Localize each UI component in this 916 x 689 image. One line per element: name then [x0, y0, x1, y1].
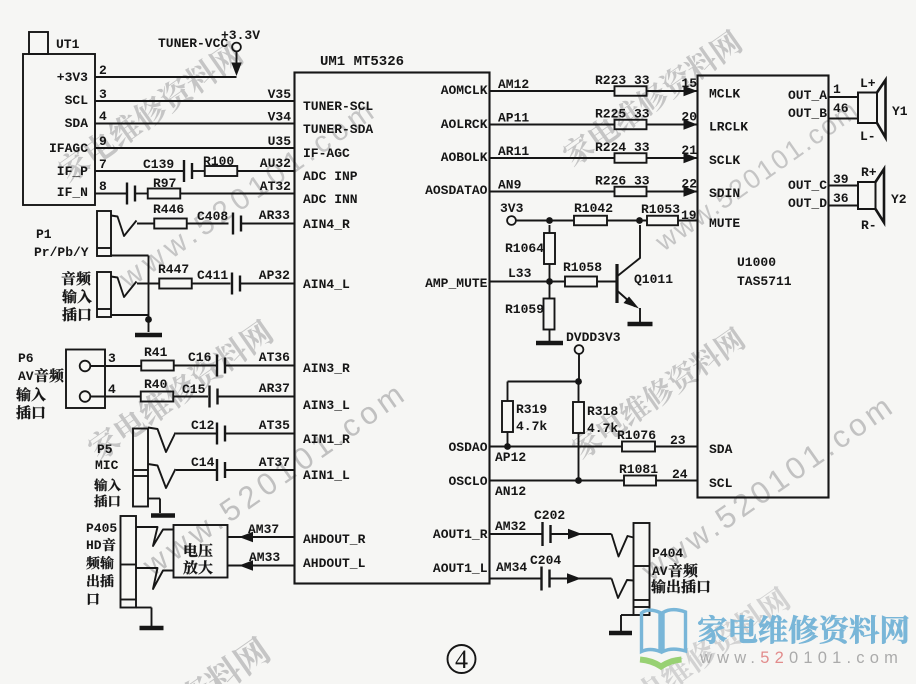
svg-text:MUTE: MUTE — [709, 216, 740, 231]
U1000 pin label OUT_B — [788, 106, 827, 121]
resistor R318 4.7k — [573, 382, 618, 481]
U1000 pin label MUTE — [709, 216, 740, 231]
pin number 7 — [99, 157, 107, 172]
svg-text:R97: R97 — [153, 176, 176, 191]
pin label SDA — [65, 116, 89, 131]
capacitor C16 — [188, 350, 225, 377]
svg-text:AP12: AP12 — [495, 450, 526, 465]
jack contact P5 upper — [148, 428, 176, 453]
svg-text:SCLK: SCLK — [709, 153, 740, 168]
jack contact P404 lower — [612, 579, 634, 599]
pin label +3V3 — [57, 70, 88, 85]
U1000 pin label OUT_D — [788, 196, 827, 211]
wire C411 to UM1 net AP32 — [241, 268, 295, 284]
svg-text:P405: P405 — [86, 521, 117, 536]
wire jack to R447 — [137, 283, 160, 285]
wire P6 pin4 to R40 — [90, 396, 141, 398]
svg-text:C12: C12 — [191, 418, 215, 433]
wire AHDOUT_R net AM37 — [228, 522, 295, 542]
svg-text:R1076: R1076 — [617, 428, 656, 443]
svg-text:TUNER-VCC: TUNER-VCC — [158, 36, 228, 51]
svg-text:R1064: R1064 — [505, 241, 544, 256]
speaker Y2 — [858, 165, 907, 233]
svg-text:AMP_MUTE: AMP_MUTE — [425, 276, 488, 291]
svg-text:LRCLK: LRCLK — [709, 120, 748, 135]
wire R41 to C16 — [174, 365, 216, 367]
resistor R446 — [153, 202, 187, 229]
svg-text:R318: R318 — [587, 404, 618, 419]
jack contact P405 lower — [136, 568, 174, 589]
decorative watermark — [607, 584, 793, 689]
ground — [536, 341, 563, 346]
pin label IF_P — [57, 164, 88, 179]
resistor R40 — [141, 377, 174, 402]
pin number 46 — [833, 101, 849, 116]
svg-text:C16: C16 — [188, 350, 212, 365]
svg-text:AT32: AT32 — [260, 179, 291, 194]
connector P6 box — [66, 350, 105, 409]
svg-text:www.520101.com: www.520101.com — [699, 649, 903, 667]
wire R97 to UM1 net AT32 — [181, 179, 295, 194]
UM1 pin label AIN3_L — [303, 398, 350, 413]
resistor R41 — [141, 345, 174, 371]
resistor R447 — [158, 262, 192, 289]
svg-text:22: 22 — [681, 177, 697, 192]
connector P404 label — [651, 546, 710, 593]
UM1 pin label TUNER-SCL — [303, 99, 373, 114]
capacitor C97in — [127, 183, 135, 205]
svg-text:SCL: SCL — [709, 476, 733, 491]
UM1 pin label AOSDATAO — [425, 183, 488, 198]
svg-text:R-: R- — [861, 218, 877, 233]
connector P405 label — [86, 521, 117, 605]
svg-text:AT36: AT36 — [259, 350, 290, 365]
svg-text:R1058: R1058 — [563, 260, 602, 275]
junction — [636, 217, 643, 224]
pin number 8 — [99, 179, 107, 194]
UM1 pin label AHDOUT_R — [303, 532, 366, 547]
svg-text:8: 8 — [99, 179, 107, 194]
speaker Y1 — [858, 76, 908, 144]
svg-text:AOBOLK: AOBOLK — [441, 150, 488, 165]
jack contact audio — [111, 277, 137, 298]
wire C16 to UM1 net AT36 — [226, 350, 295, 366]
capacitor C139 — [143, 157, 192, 182]
wire R40 to C15 — [173, 396, 208, 398]
wire R447 to C411 — [192, 283, 231, 285]
power DVDD3V3 terminal — [566, 330, 621, 354]
svg-text:L+: L+ — [860, 76, 876, 91]
svg-text:4.7k: 4.7k — [516, 419, 547, 434]
pin number 4 — [99, 109, 107, 124]
wire R1058 to Q1011 base — [597, 281, 617, 283]
UM1 pin label AOLRCK — [441, 117, 488, 132]
wire OSDAO net AP12 — [490, 447, 623, 466]
UM1 pin label AIN3_R — [303, 361, 350, 376]
jack contact P5 lower — [148, 464, 176, 488]
svg-text:OUT_D: OUT_D — [788, 196, 827, 211]
svg-text:AN12: AN12 — [495, 484, 526, 499]
svg-text:R1053: R1053 — [641, 202, 680, 217]
svg-text:20: 20 — [681, 110, 697, 125]
wire jack to R446 — [137, 223, 155, 225]
logo book icon — [640, 610, 686, 667]
decorative watermark — [649, 94, 865, 257]
svg-text:R224 33: R224 33 — [595, 140, 650, 155]
svg-text:AOUT1_R: AOUT1_R — [433, 527, 488, 542]
pin number 4 — [108, 382, 116, 397]
svg-text:AIN1_R: AIN1_R — [303, 432, 350, 447]
svg-text:L-: L- — [860, 129, 876, 144]
svg-text:TUNER-SCL: TUNER-SCL — [303, 99, 373, 114]
resistor R319 4.7k — [502, 401, 547, 447]
svg-text:AHDOUT_L: AHDOUT_L — [303, 556, 366, 571]
svg-text:AHDOUT_R: AHDOUT_R — [303, 532, 366, 547]
svg-text:OUT_B: OUT_B — [788, 106, 827, 121]
svg-text:C408: C408 — [197, 209, 228, 224]
power 3V3 terminal — [500, 201, 524, 225]
wire to C12 — [176, 433, 216, 435]
svg-text:4: 4 — [99, 109, 107, 124]
pin label SCL — [65, 93, 89, 108]
svg-text:IF-AGC: IF-AGC — [303, 146, 350, 161]
svg-text:UT1: UT1 — [56, 37, 80, 52]
wire R223 to U1000 pin 15 — [647, 76, 698, 96]
svg-text:V35: V35 — [268, 87, 292, 102]
wire R1053 to U1000 pin 19 MUTE — [678, 208, 698, 223]
svg-text:AOLRCK: AOLRCK — [441, 117, 488, 132]
wire DVDD3V3 down — [578, 354, 580, 382]
svg-text:AM33: AM33 — [249, 550, 280, 565]
jack contact P1 — [111, 216, 137, 237]
svg-text:AIN3_R: AIN3_R — [303, 361, 350, 376]
svg-text:SDA: SDA — [65, 116, 89, 131]
U1000 pin label LRCLK — [709, 120, 748, 135]
svg-text:U1000: U1000 — [737, 255, 776, 270]
wire OUT_C to speaker — [829, 185, 859, 187]
wire AN9 from UM1 — [490, 178, 615, 193]
wire R100 to UM1 net AU32 — [238, 156, 295, 171]
pin number 39 — [833, 172, 849, 187]
U1000 pin label SCLK — [709, 153, 740, 168]
resistor R1076 — [617, 428, 656, 452]
svg-text:7: 7 — [99, 157, 107, 172]
resistor R1042 — [574, 201, 613, 225]
svg-text:23: 23 — [670, 433, 686, 448]
resistor R226 33 — [595, 174, 650, 197]
svg-text:AOMCLK: AOMCLK — [441, 83, 488, 98]
svg-text:AV: AV — [18, 369, 34, 384]
U1000 pin label SCL — [709, 476, 733, 491]
wire 3V3 to R1042 — [516, 220, 574, 222]
svg-text:C411: C411 — [197, 268, 228, 283]
svg-text:OSCLO: OSCLO — [448, 474, 487, 489]
UM1 pin label OSCLO — [448, 474, 487, 489]
ground — [628, 322, 653, 327]
svg-text:SCL: SCL — [65, 93, 89, 108]
svg-text:SDIN: SDIN — [709, 186, 740, 201]
capacitor C411 — [197, 268, 240, 295]
wire P5 sleeve to ground — [148, 499, 160, 514]
capacitor C408 — [197, 209, 241, 235]
svg-text:R+: R+ — [861, 165, 877, 180]
resistor R1059 — [505, 282, 555, 342]
svg-text:P6: P6 — [18, 351, 34, 366]
UM1 pin label OSDAO — [448, 440, 487, 455]
wire OUT_D to speaker — [829, 205, 859, 207]
resistor R1064 — [505, 225, 555, 282]
svg-text:R226 33: R226 33 — [595, 174, 650, 189]
connector P5 jack body — [133, 429, 148, 507]
wire AHDOUT_L net AM33 — [228, 550, 295, 571]
svg-text:TUNER-SDA: TUNER-SDA — [303, 122, 373, 137]
power TUNER-VCC +3.3V terminal — [158, 28, 260, 51]
svg-text:Y2: Y2 — [891, 192, 907, 207]
UM1 pin label AOBOLK — [441, 150, 488, 165]
svg-text:C15: C15 — [182, 382, 206, 397]
resistor R100 — [203, 154, 237, 176]
svg-text:R225 33: R225 33 — [595, 107, 650, 122]
pin label IF_N — [57, 185, 88, 200]
svg-text:4: 4 — [108, 382, 116, 397]
svg-text:19: 19 — [681, 208, 697, 223]
svg-text:9: 9 — [99, 134, 107, 149]
wire IFAGC net U35 — [95, 134, 295, 149]
svg-text:AT37: AT37 — [259, 455, 290, 470]
capacitor C12 — [191, 418, 225, 445]
resistor R225 33 — [595, 107, 650, 130]
wire R225 to U1000 pin 20 — [647, 110, 698, 130]
U1000 pin label OUT_A — [788, 88, 827, 103]
svg-text:AR11: AR11 — [498, 144, 529, 159]
wire OUT_B to speaker — [829, 118, 859, 120]
svg-text:46: 46 — [833, 101, 849, 116]
svg-text:AM12: AM12 — [498, 77, 529, 92]
svg-text:AIN1_L: AIN1_L — [303, 468, 350, 483]
wire C408 to UM1 net AR33 — [242, 208, 295, 224]
junction — [546, 278, 553, 285]
jack contact P405 upper — [136, 527, 174, 546]
svg-text:P404: P404 — [652, 546, 683, 561]
svg-text:P1: P1 — [36, 227, 52, 242]
decorative watermark — [135, 374, 414, 584]
UM1 pin label ADC INN — [303, 192, 358, 207]
svg-text:V34: V34 — [268, 110, 292, 125]
svg-text:IF_P: IF_P — [57, 164, 88, 179]
pin number 9 — [99, 134, 107, 149]
svg-text:AOUT1_L: AOUT1_L — [433, 561, 488, 576]
svg-text:1: 1 — [833, 82, 841, 97]
UM1 pin label AIN4_L — [303, 277, 350, 292]
ground — [135, 333, 162, 338]
svg-text:3: 3 — [108, 351, 116, 366]
wire R224 to U1000 pin 21 — [647, 143, 698, 163]
svg-text:15: 15 — [681, 76, 697, 91]
wire OSCLO net AN12 — [490, 481, 625, 500]
svg-text:21: 21 — [681, 143, 697, 158]
svg-text:+3V3: +3V3 — [57, 70, 88, 85]
svg-text:Pr/Pb/Y: Pr/Pb/Y — [34, 245, 89, 260]
decorative watermark — [54, 39, 246, 186]
svg-text:36: 36 — [833, 191, 849, 206]
svg-text:AR33: AR33 — [259, 208, 290, 223]
arrow into +3V3 wire — [231, 63, 241, 77]
svg-text:AU32: AU32 — [260, 156, 291, 171]
svg-text:C139: C139 — [143, 157, 174, 172]
wire P405 sleeve to ground — [136, 608, 152, 627]
svg-text:DVDD3V3: DVDD3V3 — [566, 330, 621, 345]
wire AMP_MUTE net L33 — [490, 266, 566, 282]
decorative watermark — [84, 317, 276, 464]
wire C14 to UM1 net AT37 — [226, 455, 295, 470]
decorative watermark — [113, 92, 384, 296]
junction — [575, 477, 582, 484]
UM1 pin label AIN1_R — [303, 432, 350, 447]
wire R1081 to U1000 pin 24 SCL — [656, 467, 698, 482]
svg-text:MIC: MIC — [95, 458, 119, 473]
UM1 pin label ADC INP — [303, 169, 358, 184]
connector P1 jack body — [34, 211, 111, 260]
amplifier block voltage-amp — [174, 525, 228, 578]
wire AR11 from UM1 — [490, 144, 615, 159]
resistor R1053 — [641, 202, 680, 225]
U1000 pin label SDA — [709, 442, 733, 457]
svg-text:AIN4_R: AIN4_R — [303, 217, 350, 232]
audio input jack label — [62, 271, 92, 321]
IC UM1 MT5326 box — [295, 54, 490, 584]
svg-text:IF_N: IF_N — [57, 185, 88, 200]
decorative watermark — [559, 27, 745, 169]
svg-text:ADC INP: ADC INP — [303, 169, 358, 184]
wire R226 to U1000 pin 22 — [647, 177, 698, 197]
wire +3V3 from UT1 pin2 to TUNER-VCC — [95, 52, 237, 78]
resistor R224 33 — [595, 140, 650, 163]
wire AOUT1_L net AM34 — [490, 560, 541, 579]
svg-text:R319: R319 — [516, 402, 547, 417]
svg-text:U35: U35 — [268, 134, 292, 149]
IC U1000 TAS5711 box — [698, 76, 829, 498]
svg-text:IFAGC: IFAGC — [49, 141, 88, 156]
wire OUT_A to speaker — [829, 96, 859, 98]
svg-text:SDA: SDA — [709, 442, 733, 457]
svg-text:+3.3V: +3.3V — [221, 28, 260, 43]
svg-text:R223 33: R223 33 — [595, 73, 650, 88]
wire AP11 from UM1 — [490, 111, 615, 126]
pin number 3 — [99, 87, 107, 102]
wire SCL net V35 — [95, 87, 295, 102]
resistor R1058 — [563, 260, 602, 287]
svg-text:OUT_A: OUT_A — [788, 88, 827, 103]
wire P404 sleeve to ground — [621, 615, 634, 631]
svg-text:3V3: 3V3 — [500, 201, 524, 216]
svg-text:Q1011: Q1011 — [634, 272, 673, 287]
page number 4 — [448, 645, 476, 674]
ground — [140, 626, 164, 631]
UM1 pin label AIN4_R — [303, 217, 350, 232]
transistor Q1011 — [617, 225, 673, 322]
svg-text:Y1: Y1 — [892, 104, 908, 119]
jack contact P404 upper — [612, 534, 634, 557]
svg-text:AM34: AM34 — [496, 560, 527, 575]
svg-text:AOSDATAO: AOSDATAO — [425, 183, 488, 198]
svg-text:R1042: R1042 — [574, 201, 613, 216]
U1000 pin label SDIN — [709, 186, 740, 201]
svg-text:3: 3 — [99, 87, 107, 102]
svg-text:R446: R446 — [153, 202, 184, 217]
UM1 pin label AIN1_L — [303, 468, 350, 483]
capacitor C14 — [191, 455, 225, 481]
UM1 pin label AMP_MUTE — [425, 276, 488, 291]
svg-text:C204: C204 — [530, 553, 561, 568]
capacitor C204 — [530, 553, 561, 591]
UM1 pin label AOMCLK — [441, 83, 488, 98]
svg-text:C202: C202 — [534, 508, 565, 523]
junction — [575, 378, 582, 385]
svg-text:MCLK: MCLK — [709, 87, 740, 102]
resistor R223 33 — [595, 73, 650, 96]
wire AM12 from UM1 — [490, 77, 615, 92]
svg-text:AIN4_L: AIN4_L — [303, 277, 350, 292]
wire R446 to C408 — [187, 223, 229, 225]
U1000 pin label MCLK — [709, 87, 740, 102]
pin number 36 — [833, 191, 849, 206]
svg-text:R1059: R1059 — [505, 302, 544, 317]
svg-text:AIN3_L: AIN3_L — [303, 398, 350, 413]
svg-text:AP32: AP32 — [259, 268, 290, 283]
pin label IFAGC — [49, 141, 88, 156]
svg-text:R40: R40 — [144, 377, 168, 392]
pin number 2 — [99, 63, 107, 78]
svg-text:2: 2 — [99, 63, 107, 78]
resistor R1081 — [619, 462, 658, 486]
svg-text:R447: R447 — [158, 262, 189, 277]
svg-text:AP11: AP11 — [498, 111, 529, 126]
pin number 3 — [108, 351, 116, 366]
svg-text:L33: L33 — [508, 266, 532, 281]
connector P6 label — [16, 351, 63, 419]
wire C12 to UM1 net AT35 — [226, 418, 295, 434]
wire C204 to jack — [551, 573, 612, 583]
UM1 pin label AOUT1_R — [433, 527, 488, 542]
wire SDA net V34 — [95, 110, 295, 125]
capacitor C202 — [534, 508, 565, 546]
svg-text:HD: HD — [86, 538, 102, 553]
tuner UT1 box — [23, 32, 95, 205]
resistor R97 — [148, 176, 181, 199]
svg-text:ADC INN: ADC INN — [303, 192, 358, 207]
ground — [609, 631, 632, 636]
UM1 pin label IF-AGC — [303, 146, 350, 161]
junction — [504, 443, 511, 450]
wire P6 pin3 to R41 — [90, 365, 141, 367]
wire C202 to jack — [552, 529, 612, 539]
junction — [145, 316, 152, 323]
svg-text:AT35: AT35 — [259, 418, 290, 433]
svg-text:AM32: AM32 — [495, 519, 526, 534]
ground — [151, 513, 175, 518]
svg-text:4: 4 — [455, 645, 468, 674]
UM1 pin label AHDOUT_L — [303, 556, 366, 571]
svg-text:C14: C14 — [191, 455, 215, 470]
logo site name — [698, 615, 908, 644]
U1000 pin label OUT_C — [788, 178, 827, 193]
wire jack sleeves to ground — [111, 256, 149, 333]
connector P5 label — [94, 442, 121, 507]
UM1 pin label TUNER-SDA — [303, 122, 373, 137]
decorative watermark — [634, 387, 901, 589]
junction — [546, 217, 553, 224]
wire R1076 to U1000 pin 23 SDA — [655, 433, 698, 448]
